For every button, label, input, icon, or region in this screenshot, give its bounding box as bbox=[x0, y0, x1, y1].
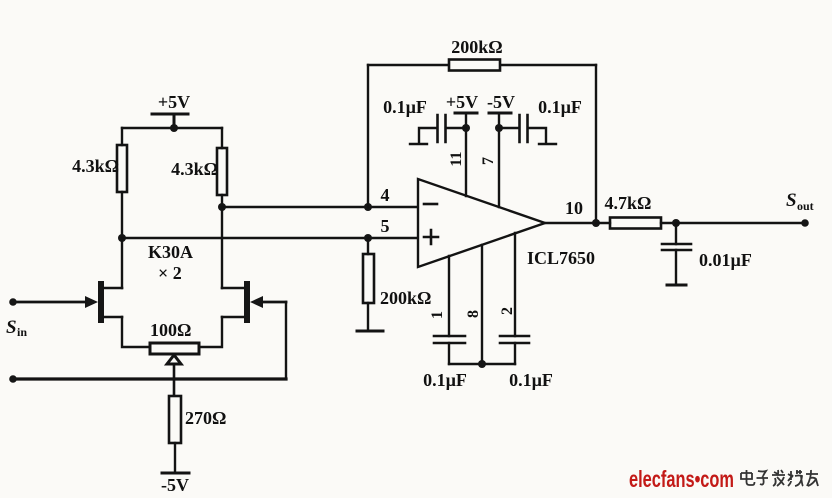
pin 7 wire bbox=[498, 113, 500, 207]
wire top rail left bbox=[122, 127, 222, 129]
watermark elecfans.com bbox=[629, 466, 734, 492]
wire right gate vertical bbox=[285, 302, 287, 379]
node pin7 cap junction bbox=[495, 124, 503, 132]
resistor R5 200k to ground bbox=[363, 238, 431, 331]
transistor Q1 JFET left bbox=[13, 238, 150, 347]
wire to Sout bbox=[676, 222, 805, 224]
svg-text:2: 2 bbox=[499, 307, 516, 315]
terminal Sout bbox=[801, 219, 809, 227]
terminal Sin bottom bbox=[9, 375, 17, 383]
wire caps bottom bbox=[449, 363, 515, 365]
node pin5 takeoff bbox=[118, 234, 126, 242]
node pin8 junction bbox=[478, 360, 486, 368]
label Sin bbox=[6, 317, 27, 339]
svg-text:5: 5 bbox=[381, 216, 390, 236]
svg-text:-5V: -5V bbox=[161, 475, 189, 495]
node output feedback bbox=[592, 219, 600, 227]
ground C5 bbox=[667, 284, 686, 287]
svg-text:10: 10 bbox=[565, 198, 583, 218]
watermark chinese dian bbox=[741, 470, 755, 485]
node pin11 cap junction bbox=[462, 124, 470, 132]
svg-text:-5V: -5V bbox=[487, 92, 515, 112]
svg-text:270Ω: 270Ω bbox=[185, 408, 226, 428]
svg-text:in: in bbox=[17, 325, 27, 339]
svg-text:+5V: +5V bbox=[446, 92, 478, 112]
resistor R6 4.7k bbox=[596, 193, 676, 229]
svg-text:× 2: × 2 bbox=[158, 263, 182, 283]
resistor R4 270R bbox=[169, 396, 226, 473]
svg-text:200kΩ: 200kΩ bbox=[380, 288, 431, 308]
svg-text:0.01µF: 0.01µF bbox=[699, 250, 752, 270]
svg-text:100Ω: 100Ω bbox=[150, 320, 191, 340]
svg-text:8: 8 bbox=[465, 310, 482, 318]
capacitor C2 0.1uF right bbox=[499, 97, 582, 144]
supply +5V opamp bbox=[446, 92, 478, 113]
svg-text:4.3kΩ: 4.3kΩ bbox=[171, 159, 218, 179]
supply -5V bottom bbox=[161, 473, 189, 495]
watermark chinese you bbox=[806, 470, 818, 486]
node +5V junction bbox=[170, 124, 178, 132]
svg-text:0.1µF: 0.1µF bbox=[383, 97, 427, 117]
svg-text:ICL7650: ICL7650 bbox=[527, 248, 595, 268]
node R5 to pin5 bbox=[364, 234, 372, 242]
svg-text:4.7kΩ: 4.7kΩ bbox=[605, 193, 652, 213]
wire feedback right vertical bbox=[595, 65, 597, 223]
svg-text:0.1µF: 0.1µF bbox=[423, 370, 467, 390]
wire feedback top bbox=[368, 64, 596, 66]
op-amp U1 ICL7650 bbox=[418, 179, 595, 268]
capacitor C5 0.01uF bbox=[662, 223, 752, 284]
watermark chinese shao bbox=[788, 470, 803, 486]
svg-text:0.1µF: 0.1µF bbox=[509, 370, 553, 390]
ground R5 bbox=[357, 330, 383, 333]
svg-text:out: out bbox=[797, 199, 814, 213]
node output filter bbox=[672, 219, 680, 227]
svg-text:4.3kΩ: 4.3kΩ bbox=[72, 156, 119, 176]
terminal Sin top bbox=[9, 298, 17, 306]
supply -5V opamp bbox=[487, 92, 515, 113]
resistor R2 4.3k right bbox=[171, 128, 227, 207]
svg-text:7: 7 bbox=[480, 157, 497, 165]
svg-text:0.1µF: 0.1µF bbox=[538, 97, 582, 117]
svg-text:S: S bbox=[6, 317, 17, 338]
wire feedback left vertical bbox=[367, 65, 369, 207]
pin 2 wire bbox=[514, 233, 516, 336]
wire pin 5 bbox=[122, 237, 418, 239]
wire bottom return bbox=[13, 377, 286, 380]
svg-text:1: 1 bbox=[429, 311, 446, 319]
wire pin 4 bbox=[222, 206, 418, 208]
capacitor C1 0.1uF left bbox=[383, 97, 466, 144]
watermark chinese zi bbox=[757, 471, 769, 485]
resistor Rf 200k bbox=[449, 37, 503, 71]
potentiometer R3 100R bbox=[150, 320, 199, 396]
svg-text:11: 11 bbox=[448, 151, 465, 166]
wire output bbox=[545, 222, 596, 224]
resistor R1 4.3k left bbox=[72, 128, 127, 238]
pin 11 wire bbox=[465, 113, 467, 196]
capacitor C4 0.1uF pin2 bbox=[500, 336, 553, 390]
svg-text:4: 4 bbox=[381, 185, 390, 205]
svg-text:K30A: K30A bbox=[148, 242, 193, 262]
capacitor C3 0.1uF pin1 bbox=[423, 336, 467, 390]
pin 8 wire bbox=[481, 245, 483, 364]
watermark chinese fa bbox=[772, 470, 785, 486]
svg-text:S: S bbox=[786, 190, 797, 211]
svg-text:elecfans•com: elecfans•com bbox=[629, 466, 734, 492]
transistor Q2 JFET right bbox=[199, 207, 286, 347]
label Sout bbox=[786, 190, 814, 213]
svg-text:+5V: +5V bbox=[158, 92, 190, 112]
pin 1 wire bbox=[448, 256, 450, 336]
svg-text:200kΩ: 200kΩ bbox=[451, 37, 502, 57]
supply +5V left bbox=[152, 92, 190, 128]
node pin4 takeoff bbox=[218, 203, 226, 211]
node feedback to pin4 bbox=[364, 203, 372, 211]
